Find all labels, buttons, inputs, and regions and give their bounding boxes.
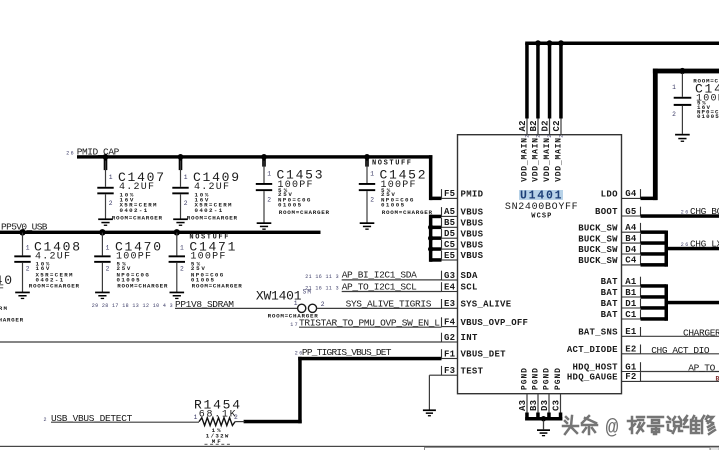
capacitor C1470: [94, 229, 168, 299]
svg-text:E2: E2: [625, 345, 636, 355]
svg-text:A1: A1: [625, 277, 637, 287]
svg-text:1: 1: [109, 174, 113, 181]
svg-text:E3: E3: [444, 299, 455, 309]
svg-text:2: 2: [370, 197, 374, 204]
svg-text:B: B: [716, 375, 719, 382]
junction dots on PMID bus: [103, 154, 109, 160]
ground: [360, 222, 375, 224]
svg-text:G4: G4: [625, 189, 637, 199]
pin E4 SCL: [442, 282, 478, 293]
wire PMID bus: [77, 155, 432, 158]
svg-text:VDD_MAIN: VDD_MAIN: [555, 138, 564, 182]
pin G3 SDA: [442, 271, 478, 282]
wire SDA to pin G3: [342, 279, 442, 281]
svg-text:LDO: LDO: [601, 190, 618, 200]
svg-text:2: 2: [184, 200, 188, 207]
svg-text:D4: D4: [625, 245, 637, 255]
pin E2 ACT_DIODE: [567, 345, 641, 356]
jumper XW1401: [256, 288, 325, 319]
capacitor C1440 partial labels at left edge: [0, 273, 24, 323]
capacitor C1453: [256, 159, 330, 230]
wire BAT bar net: [641, 284, 719, 321]
svg-text:C1: C1: [625, 310, 637, 320]
svg-text:G3: G3: [444, 271, 455, 281]
pin F4 VBUS_OVP_OFF: [442, 317, 528, 328]
svg-text:VBUS: VBUS: [461, 240, 484, 250]
svg-text:26: 26: [681, 242, 689, 248]
svg-text:2: 2: [267, 197, 271, 204]
svg-text:B3: B3: [529, 400, 539, 411]
pin C2 VDD_MAIN: [552, 40, 565, 182]
svg-text:ROOM=CHARGER: ROOM=CHARGER: [29, 283, 80, 290]
svg-text:1: 1: [194, 414, 198, 421]
svg-text:G5: G5: [625, 207, 636, 217]
svg-text:ROOM=CHARGER: ROOM=CHARGER: [382, 209, 433, 216]
svg-text:BUCK_SW: BUCK_SW: [578, 234, 618, 244]
svg-text:ACT_DIODE: ACT_DIODE: [567, 345, 618, 355]
junction dots on PP5V0_USB bus: [20, 229, 26, 235]
ground: [95, 292, 110, 294]
wire INT to pin G2: [0, 341, 442, 343]
svg-text:D2: D2: [541, 121, 551, 132]
wire SYS_ALIVE_TIGRIS to pin E3: [317, 307, 442, 309]
svg-text:VBUS: VBUS: [461, 219, 484, 229]
resistor R1454: [194, 398, 241, 446]
pin B5 VBUS: [442, 218, 484, 229]
svg-text:2: 2: [180, 266, 184, 273]
svg-text:E1: E1: [625, 327, 637, 337]
svg-text:F1: F1: [444, 349, 456, 359]
svg-text:G2: G2: [444, 333, 455, 343]
svg-text:1: 1: [370, 170, 374, 177]
svg-text:VBUS: VBUS: [461, 229, 484, 239]
pin B2 VDD_MAIN: [529, 40, 542, 182]
svg-text:C3: C3: [552, 400, 562, 411]
svg-text:2: 2: [321, 301, 325, 308]
sheet border bottom line: [0, 446, 719, 447]
svg-text:1: 1: [26, 245, 30, 252]
pin D3 PGND: [540, 368, 552, 421]
svg-text:E5: E5: [444, 251, 455, 261]
svg-text:PGND: PGND: [532, 368, 541, 390]
ground: [170, 292, 185, 294]
svg-text:NOSTUFF: NOSTUFF: [372, 160, 411, 168]
svg-text:PP_TIGRIS_VBUS_DET: PP_TIGRIS_VBUS_DET: [302, 347, 392, 358]
svg-text:BUCK_SW: BUCK_SW: [578, 223, 618, 233]
pin A4 BUCK_SW: [578, 223, 640, 234]
svg-text:ROOM=CHARGER: ROOM=CHARGER: [279, 209, 330, 216]
pin F3 TEST: [442, 366, 484, 377]
wire BUCK_SW bar and CHG_LX net: [641, 230, 719, 266]
svg-text:D3: D3: [540, 400, 550, 411]
svg-text:VDD_MAIN: VDD_MAIN: [532, 138, 541, 182]
pin G4 LDO: [601, 189, 641, 200]
svg-text:1: 1: [184, 174, 188, 181]
svg-text:U1401: U1401: [520, 189, 562, 202]
pin C5 VBUS: [442, 240, 484, 251]
svg-text:2: 2: [106, 266, 110, 273]
wire HDQ_HOST net AP_TO label: [641, 371, 719, 373]
pin C3 PGND: [552, 368, 564, 421]
svg-text:B2: B2: [529, 121, 539, 132]
pin D2 VDD_MAIN: [541, 40, 554, 182]
svg-text:E4: E4: [444, 282, 456, 292]
capacitor C1409: [172, 159, 239, 226]
svg-text:A4: A4: [625, 223, 637, 233]
ground: [675, 134, 690, 136]
wire PP5V0_USB bus: [0, 231, 321, 234]
pin F5 PMID: [442, 189, 484, 200]
svg-text:1: 1: [267, 170, 271, 177]
wire HDQ_GAUGE net: [641, 380, 719, 382]
op-amp U1401 IC body SN2400BOYFF: [458, 135, 622, 394]
svg-text:21 16 11 3: 21 16 11 3: [305, 274, 338, 280]
svg-text:A5: A5: [444, 207, 455, 217]
svg-text:BAT: BAT: [601, 288, 618, 298]
pin E1 BAT_SNS: [578, 327, 640, 338]
watermark toutiao @yangge: [563, 416, 715, 434]
svg-text:PGND: PGND: [543, 368, 552, 390]
svg-text:1: 1: [106, 245, 110, 252]
svg-text:C4: C4: [625, 256, 637, 266]
svg-text:ROOM=CHARGER: ROOM=CHARGER: [117, 283, 168, 290]
ground: [173, 218, 188, 220]
wire TRISTAR to pin F4: [299, 326, 442, 328]
svg-text:2: 2: [109, 200, 113, 207]
capacitor C1450 top right: [672, 73, 719, 142]
svg-text:ROOM=CHARGER: ROOM=CHARGER: [0, 316, 24, 323]
svg-text:2: 2: [559, 135, 565, 138]
svg-text:VDD_MAIN: VDD_MAIN: [521, 138, 530, 182]
svg-text:2: 2: [547, 135, 553, 138]
svg-text:D1: D1: [625, 299, 637, 309]
svg-text:G1: G1: [625, 362, 637, 372]
svg-text:BAT: BAT: [601, 310, 618, 320]
pin A2 VDD_MAIN: [518, 43, 531, 182]
svg-text:VBUS: VBUS: [461, 208, 484, 218]
pin E5 VBUS: [442, 251, 484, 262]
svg-text:BOOT: BOOT: [595, 207, 618, 217]
svg-text:AP_BI_I2C1_SDA: AP_BI_I2C1_SDA: [342, 270, 417, 281]
pin G2 INT: [442, 333, 478, 344]
svg-text:26: 26: [66, 151, 74, 157]
svg-text:PMID: PMID: [461, 190, 484, 200]
svg-text:B5: B5: [444, 218, 455, 228]
capacitor C1471: [169, 229, 243, 299]
svg-text:A2: A2: [518, 121, 528, 132]
wire VBUS vertical bar joining pins A5 B5 D5 C5 E5: [429, 215, 433, 262]
svg-text:BUCK_SW: BUCK_SW: [578, 256, 618, 266]
svg-text:0402-1: 0402-1: [120, 207, 148, 214]
svg-text:TEST: TEST: [461, 366, 484, 376]
wire SCL to pin E4: [342, 291, 442, 293]
svg-text:2: 2: [525, 135, 531, 138]
wire R1454 pin2 to thick net: [235, 421, 244, 423]
pin C1 BAT: [601, 310, 641, 321]
svg-text:0402-1: 0402-1: [195, 207, 223, 214]
svg-text:BAT: BAT: [601, 299, 618, 309]
pin F2 HDQ_GAUGE: [567, 372, 641, 383]
svg-text:CHG_BOOST: CHG_BOOST: [690, 206, 719, 217]
svg-text:ROOM=CHARGER: ROOM=CHARGER: [187, 214, 238, 221]
pin G5 BOOT: [595, 207, 641, 218]
svg-text:ROOM=CHARGER: ROOM=CHARGER: [112, 214, 163, 221]
svg-text:PGND: PGND: [554, 368, 563, 390]
capacitor C1452: [359, 159, 433, 230]
title block top edge: [425, 447, 711, 450]
svg-text:BAT: BAT: [601, 277, 618, 287]
svg-text:26: 26: [681, 209, 689, 215]
ground for TEST: [423, 409, 436, 411]
svg-text:CHG_LX: CHG_LX: [690, 238, 719, 249]
svg-text:INT: INT: [461, 333, 478, 343]
pin C4 BUCK_SW: [578, 256, 640, 267]
svg-text:SN2400BOYFF: SN2400BOYFF: [505, 202, 578, 213]
svg-text:B4: B4: [625, 234, 637, 244]
pin F1 VBUS_DET: [442, 349, 507, 360]
svg-text:VBUS_OVP_OFF: VBUS_OVP_OFF: [461, 318, 528, 328]
pin B3 PGND: [529, 368, 541, 421]
wire PP_TIGRIS_VBUS_DET thick to pin F1: [298, 357, 441, 361]
svg-text:A3: A3: [518, 400, 528, 411]
wire BOOT thick net CHG_BOOST: [641, 214, 719, 218]
pin A1 BAT: [601, 277, 641, 288]
svg-text:C2: C2: [552, 121, 562, 132]
wire BAT_SNS net CHARGER label: [641, 335, 719, 337]
svg-text:SDA: SDA: [461, 271, 478, 281]
pin A5 VBUS: [442, 207, 484, 218]
wire TEST pin F3 to ground: [429, 374, 441, 376]
svg-text:HDQ_GAUGE: HDQ_GAUGE: [567, 373, 618, 383]
ground: [257, 222, 272, 224]
svg-text:F2: F2: [625, 372, 636, 382]
svg-text:4.7UF: 4.7UF: [0, 284, 4, 295]
svg-text:ROOM=CHARGER: ROOM=CHARGER: [192, 283, 243, 290]
svg-text:F3: F3: [444, 366, 455, 376]
svg-text:B1: B1: [625, 288, 637, 298]
svg-text:01005: 01005: [697, 113, 719, 120]
pin D5 VBUS: [442, 229, 484, 240]
svg-text:VDD_MAIN: VDD_MAIN: [543, 138, 552, 182]
svg-text:BAT_SNS: BAT_SNS: [578, 328, 618, 338]
svg-text:1: 1: [180, 245, 184, 252]
pin B1 BAT: [601, 288, 641, 299]
svg-text:SYS_ALIVE: SYS_ALIVE: [461, 300, 512, 310]
wire PP1V8_SDRAM to jumper XW1401: [175, 307, 297, 309]
svg-text:2: 2: [26, 266, 30, 273]
ground: [98, 218, 113, 220]
svg-text:F5: F5: [444, 189, 455, 199]
pin D4 BUCK_SW: [578, 245, 640, 256]
pin G1 HDQ_HOST: [573, 362, 641, 373]
wire USB_VBUS_DETECT to R1454: [51, 421, 199, 423]
svg-text:HDQ_HOST: HDQ_HOST: [573, 363, 619, 373]
svg-text:2: 2: [44, 417, 47, 423]
svg-text:CHG_ACT_DIO: CHG_ACT_DIO: [651, 345, 710, 356]
svg-text:SM: SM: [303, 288, 312, 295]
svg-text:SCL: SCL: [461, 283, 478, 293]
svg-text:2: 2: [672, 111, 676, 118]
svg-text:2: 2: [234, 414, 238, 421]
svg-text:AP_TO_TIGRIS: AP_TO_TIGRIS: [688, 363, 719, 374]
svg-text:17: 17: [290, 322, 298, 328]
svg-text:2: 2: [536, 135, 542, 138]
svg-text:WCSP: WCSP: [531, 213, 551, 221]
svg-text:@: @: [606, 417, 619, 441]
svg-text:C5: C5: [444, 240, 455, 250]
svg-text:29 28 17 18 13 12 10 4 3: 29 28 17 18 13 12 10 4 3: [92, 303, 173, 309]
svg-text:D5: D5: [444, 229, 455, 239]
svg-text:VBUS: VBUS: [461, 251, 484, 261]
wire PMID drop to pin F5: [429, 155, 433, 200]
svg-text:VBUS_DET: VBUS_DET: [461, 350, 507, 360]
svg-text:X5R=CERM: X5R=CERM: [0, 305, 8, 312]
pin D1 BAT: [601, 299, 641, 310]
pin B4 BUCK_SW: [578, 234, 640, 245]
svg-text:F4: F4: [444, 317, 456, 327]
svg-text:1: 1: [672, 84, 676, 91]
svg-text:CHARGER_BATSNS: CHARGER_BATSNS: [683, 327, 719, 338]
wire VDD_MAIN top bus: [525, 42, 719, 46]
capacitor C1408: [14, 229, 80, 299]
U1401 refdes highlighted: [519, 190, 563, 200]
wire PGND bottom bar: [525, 417, 562, 421]
capacitor C1407: [97, 159, 164, 226]
pin A3 PGND: [518, 368, 530, 421]
svg-text:1: 1: [294, 300, 298, 307]
ground: [15, 292, 30, 294]
svg-text:PGND: PGND: [521, 368, 530, 390]
svg-text:BUCK_SW: BUCK_SW: [578, 245, 618, 255]
wire ACT_DIODE net CHG_ACT_DIO label: [641, 353, 719, 355]
wire LDO thick net to top-right: [641, 197, 657, 201]
pin E3 SYS_ALIVE: [442, 299, 512, 310]
ground for PGND: [537, 416, 550, 436]
